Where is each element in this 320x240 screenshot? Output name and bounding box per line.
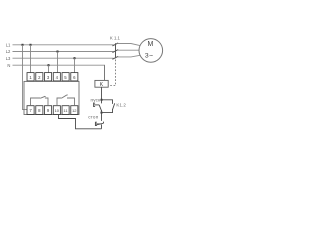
svg-text:11: 11 xyxy=(63,108,68,113)
wire L1 to terminal 7 (down, right, into box side) xyxy=(23,45,28,110)
stop button contact xyxy=(95,122,103,129)
junction dot N xyxy=(48,64,50,66)
wire K1.1 to motor phase 1 xyxy=(117,44,140,46)
junction dot L3 xyxy=(74,57,76,59)
start button contact xyxy=(94,100,102,113)
wire coil K to start button xyxy=(101,87,103,100)
wire stop to terminal 10 (left, up, left, up) xyxy=(59,114,102,129)
svg-text:K1.2: K1.2 xyxy=(116,102,126,107)
wire N line xyxy=(13,64,106,66)
wire L1 to terminal 1 xyxy=(30,45,32,73)
contact K1.1 pole 1 blade xyxy=(112,43,118,46)
wire N to coil K (right then down) xyxy=(104,65,106,80)
svg-text:5: 5 xyxy=(64,75,67,80)
contact K1.1 linkage solid xyxy=(115,43,117,58)
svg-text:8: 8 xyxy=(38,108,41,113)
svg-text:K 1.1: K 1.1 xyxy=(110,36,121,41)
svg-text:6: 6 xyxy=(73,75,76,80)
svg-text:1: 1 xyxy=(29,75,32,80)
wire L2 to terminal 4 xyxy=(57,52,59,73)
contact K1.1 pole 3 blade xyxy=(112,56,118,59)
svg-text:7: 7 xyxy=(29,108,32,113)
contact K1.2 branch wires xyxy=(102,100,113,113)
wire K1.1 to motor phase 3 xyxy=(117,55,140,57)
svg-text:стоп: стоп xyxy=(88,115,99,120)
coil K box xyxy=(95,80,108,87)
terminal boxes top row xyxy=(27,73,34,81)
junction dot L1-b xyxy=(30,44,32,46)
junction dot L1-a xyxy=(22,44,24,46)
svg-text:L1: L1 xyxy=(6,42,11,47)
svg-text:3: 3 xyxy=(47,75,50,80)
contact K1.2 blade xyxy=(113,103,115,109)
junction dot start-bottom xyxy=(101,112,103,114)
wire L2 line xyxy=(13,51,114,53)
svg-text:2: 2 xyxy=(38,75,41,80)
relay device body xyxy=(24,81,79,114)
wire L3 line xyxy=(13,57,114,59)
wire L3 to terminal 6 xyxy=(74,58,76,72)
wire N to terminal 3 xyxy=(48,65,50,73)
motor M circle xyxy=(139,39,163,63)
wire start to stop xyxy=(101,113,103,121)
junction dot start-top xyxy=(101,99,103,101)
wire K1.1 to motor phase 2 xyxy=(117,49,139,51)
svg-text:N: N xyxy=(7,63,10,68)
terminal boxes bottom row xyxy=(27,106,34,115)
svg-text:10: 10 xyxy=(55,108,60,113)
svg-text:12: 12 xyxy=(72,108,77,113)
linkage dashed to coil xyxy=(108,60,115,86)
svg-text:M: M xyxy=(147,41,153,48)
svg-text:3~: 3~ xyxy=(145,53,154,60)
internal relay contact 7-9 xyxy=(31,96,49,105)
contact K1.1 pole 2 blade xyxy=(112,50,118,53)
junction dot L2 xyxy=(57,51,59,53)
svg-text:L3: L3 xyxy=(6,56,11,61)
wire L1 line xyxy=(13,44,114,46)
svg-text:L2: L2 xyxy=(6,49,11,54)
internal relay contact 10-12 xyxy=(57,95,75,106)
svg-text:9: 9 xyxy=(47,108,50,113)
svg-text:4: 4 xyxy=(56,75,59,80)
svg-text:пуск: пуск xyxy=(91,97,102,102)
